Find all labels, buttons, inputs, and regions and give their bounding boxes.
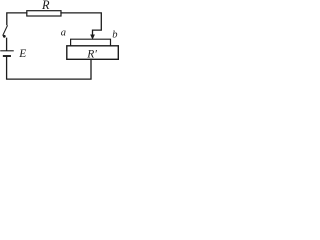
svg-text:a: a [61, 28, 66, 39]
svg-text:b: b [112, 30, 117, 41]
svg-text:R′: R′ [86, 48, 97, 60]
svg-text:E: E [18, 48, 26, 60]
svg-text:R: R [41, 0, 50, 12]
